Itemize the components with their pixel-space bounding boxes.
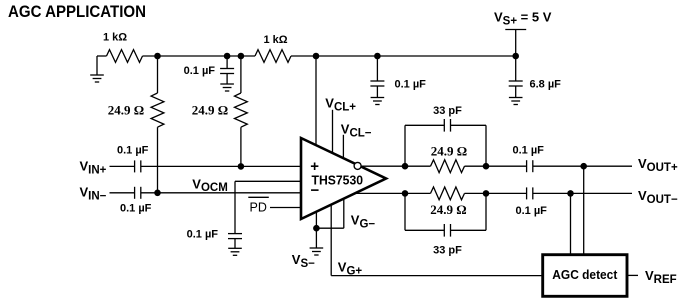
node I out- loop left [402, 190, 409, 197]
wire U1 out+ to R5 [362, 165, 431, 167]
node VS- junction [313, 225, 320, 232]
resistor R2 24.9 Ohm vertical [151, 56, 164, 193]
node cap junction [224, 53, 231, 60]
VOUT- terminal label [638, 188, 678, 206]
op-amp U1 THS7530 triangle [301, 138, 386, 219]
wire C10 to VOUT- [533, 192, 632, 194]
capacitor C1 0.1 uF shunt [220, 56, 234, 91]
wire PD to amp [270, 207, 301, 209]
node A junction [154, 53, 161, 60]
svg-text:0.1 µF: 0.1 µF [395, 79, 427, 91]
PD pin label with overline [248, 197, 268, 214]
svg-text:6.8 µF: 6.8 µF [530, 79, 562, 91]
capacitor C4 0.1 uF series [135, 160, 141, 172]
node J out- loop right [483, 190, 490, 197]
node R2 to VIN- line [154, 190, 161, 197]
R4 value label 1 kOhm [263, 34, 287, 46]
node G out+ loop right [483, 163, 490, 170]
VREF terminal label [645, 268, 677, 286]
C8 value label 0.1 uF [513, 145, 545, 157]
VOUT+ terminal label [638, 156, 678, 174]
wire C5 to amp - input [141, 192, 301, 194]
svg-text:33 pF: 33 pF [433, 105, 462, 117]
wire VG- pin to VS- node [316, 199, 343, 228]
resistor R6 24.9 Ohm [431, 187, 465, 200]
svg-text:33 pF: 33 pF [433, 245, 462, 257]
VOCM net label [192, 176, 228, 194]
resistor R1 1 kOhm [107, 50, 143, 63]
wire U1 out- to R6 [355, 192, 431, 194]
R3 value label 24.9 Ohm [192, 103, 228, 118]
C1 value label 0.1 uF [184, 65, 216, 77]
node H VOUT+ junction [580, 163, 587, 170]
AGC detect block U2 [543, 255, 627, 297]
capacitor C8 0.1 uF series [527, 160, 533, 172]
R2 value label 24.9 Ohm [108, 103, 144, 118]
VS+ label = 5 V [494, 9, 552, 27]
U2 label AGC detect [552, 267, 618, 282]
wire top rail segment left [97, 55, 107, 57]
svg-text:AGC APPLICATION: AGC APPLICATION [8, 2, 146, 21]
C5 value label 0.1 uF [120, 203, 152, 215]
ground at left input of R1 [90, 56, 104, 82]
node D junction [374, 53, 381, 60]
VCL- pin label [341, 121, 372, 139]
capacitor C2 0.1 uF shunt [370, 56, 384, 105]
C9 value label 33 pF [433, 245, 462, 257]
capacitor C6 0.1 uF on VOCM [228, 181, 242, 255]
node K VOUT- junction [567, 190, 574, 197]
svg-text:AGC detect: AGC detect [552, 267, 618, 282]
wire VCL+ pin [332, 110, 334, 154]
node E VS+ junction [512, 53, 519, 60]
capacitor C9 33 pF feedback lower [405, 193, 486, 236]
VG- pin label [351, 213, 376, 231]
wire node H to AGC detect [583, 166, 585, 255]
wire C4 to amp + input [141, 165, 301, 167]
C2 value label 0.1 uF [395, 79, 427, 91]
VG+ pin label [338, 260, 363, 278]
wire R6 to C10 [465, 192, 527, 194]
wire VS- pin of U1 [315, 212, 317, 248]
C6 value label 0.1 uF [187, 229, 219, 241]
svg-text:1 kΩ: 1 kΩ [263, 34, 287, 46]
svg-text:24.9 Ω: 24.9 Ω [430, 202, 466, 217]
wire node K to AGC detect [570, 193, 572, 254]
R1 value label 1 kOhm [103, 32, 127, 44]
svg-text:0.1 µF: 0.1 µF [117, 145, 149, 157]
capacitor C5 0.1 uF series [135, 187, 141, 199]
VCL+ pin label [325, 96, 356, 114]
wire node A to node B [143, 55, 256, 57]
svg-text:0.1 µF: 0.1 µF [516, 205, 548, 217]
svg-text:0.1 µF: 0.1 µF [120, 203, 152, 215]
VIN- terminal label [80, 185, 107, 203]
svg-text:0.1 µF: 0.1 µF [184, 65, 216, 77]
U1 - input marker [311, 182, 320, 199]
wire VIN- to C5 [110, 192, 135, 194]
resistor R3 24.9 Ohm vertical [235, 56, 248, 166]
svg-text:0.1 µF: 0.1 µF [513, 145, 545, 157]
wire VOCM to amp [235, 180, 301, 182]
U1 + input marker [310, 158, 319, 175]
C7 value label 33 pF [433, 105, 462, 117]
wire VG+ to AGC detect [331, 275, 543, 277]
wire node C to amp top [315, 56, 317, 146]
wire R5 to C8 [465, 165, 527, 167]
svg-text:0.1 µF: 0.1 µF [187, 229, 219, 241]
VIN+ terminal label [80, 159, 107, 177]
svg-text:24.9 Ω: 24.9 Ω [431, 144, 467, 159]
node F out+ loop left [402, 163, 409, 170]
wire VIN+ to C4 [110, 165, 135, 167]
resistor R4 1 kOhm [255, 50, 291, 63]
R6 value label 24.9 Ohm [430, 202, 466, 217]
capacitor C10 0.1 uF series [527, 187, 533, 199]
resistor R5 24.9 Ohm [431, 160, 465, 173]
svg-text:1 kΩ: 1 kΩ [103, 32, 127, 44]
wire C8 to VOUT+ [533, 165, 632, 167]
wire VG+ pin down [330, 205, 332, 276]
capacitor C3 6.8 uF shunt [509, 56, 523, 105]
svg-text:24.9 Ω: 24.9 Ω [192, 103, 228, 118]
C4 value label 0.1 uF [117, 145, 149, 157]
U1 device name THS7530 [312, 172, 364, 187]
capacitor C7 33 pF feedback upper [405, 119, 486, 166]
node R3 to VIN+ line [238, 163, 245, 170]
svg-text:PD: PD [250, 200, 267, 214]
U1 output inversion bubble [354, 162, 361, 169]
node B junction [238, 53, 245, 60]
VS+ supply terminal [505, 30, 526, 57]
wire U2 to VREF [627, 274, 638, 276]
C10 value label 0.1 uF [516, 205, 548, 217]
wire VCL- pin [342, 135, 344, 159]
wire R4 to VS+ node [291, 55, 516, 57]
R5 value label 24.9 Ohm [431, 144, 467, 159]
ground at VS- pin [310, 248, 324, 255]
svg-text:−: − [311, 182, 320, 199]
svg-text:24.9 Ω: 24.9 Ω [108, 103, 144, 118]
C3 value label 6.8 uF [530, 79, 562, 91]
VS- label [292, 252, 315, 270]
node C supply to amp [313, 53, 320, 60]
